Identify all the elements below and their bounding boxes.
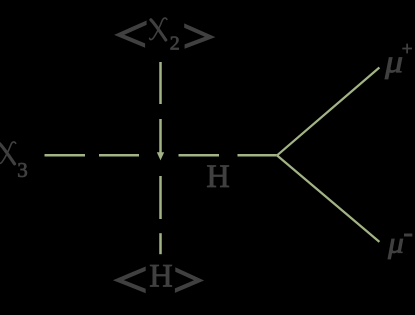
label: left angle bracket of <chi2> <box>114 21 147 48</box>
label: subscript 3 of chi3 <box>17 158 28 182</box>
label: left angle bracket of <H> <box>113 267 146 294</box>
label: superscript plus of mu+ <box>402 39 413 60</box>
wire: chi2 dashed propagator (vertical, upper) <box>159 62 162 154</box>
label: H boson on horizontal propagator <box>206 159 229 195</box>
svg-text:μ: μ <box>384 45 403 80</box>
svg-text:μ: μ <box>387 226 404 259</box>
svg-text:H: H <box>206 159 229 195</box>
label: H of <H> (Higgs vev) <box>149 259 172 295</box>
label: chi of chi3 (incoming particle) <box>0 142 16 164</box>
wire: mu+ fermion line (diagonal up-right) <box>277 68 379 156</box>
label: subscript 2 of chi2 <box>170 33 180 55</box>
svg-text:H: H <box>149 259 172 295</box>
wire: H vev dashed propagator (vertical, lower) <box>159 176 162 254</box>
label: mu of mu+ (outgoing antimuon) <box>384 45 403 80</box>
wire: chi3 dashed propagator (horizontal left) <box>45 154 140 157</box>
wire: mu- fermion line (diagonal down-right) <box>277 155 379 242</box>
label: superscript minus of mu- <box>404 234 412 237</box>
label: mu of mu- (outgoing muon) <box>387 226 404 259</box>
svg-text:3: 3 <box>17 158 28 182</box>
label: right angle bracket of <chi2> <box>184 23 215 48</box>
svg-text:2: 2 <box>170 33 180 55</box>
arrow: downward arrowhead on vertical propagator at center vertex <box>157 152 164 160</box>
label: chi of chi2 <box>150 18 167 40</box>
label: right angle bracket of <H> <box>175 267 204 293</box>
svg-text:+: + <box>402 39 413 60</box>
wire: H dashed propagator (horizontal, center to muon vertex) <box>179 154 277 157</box>
